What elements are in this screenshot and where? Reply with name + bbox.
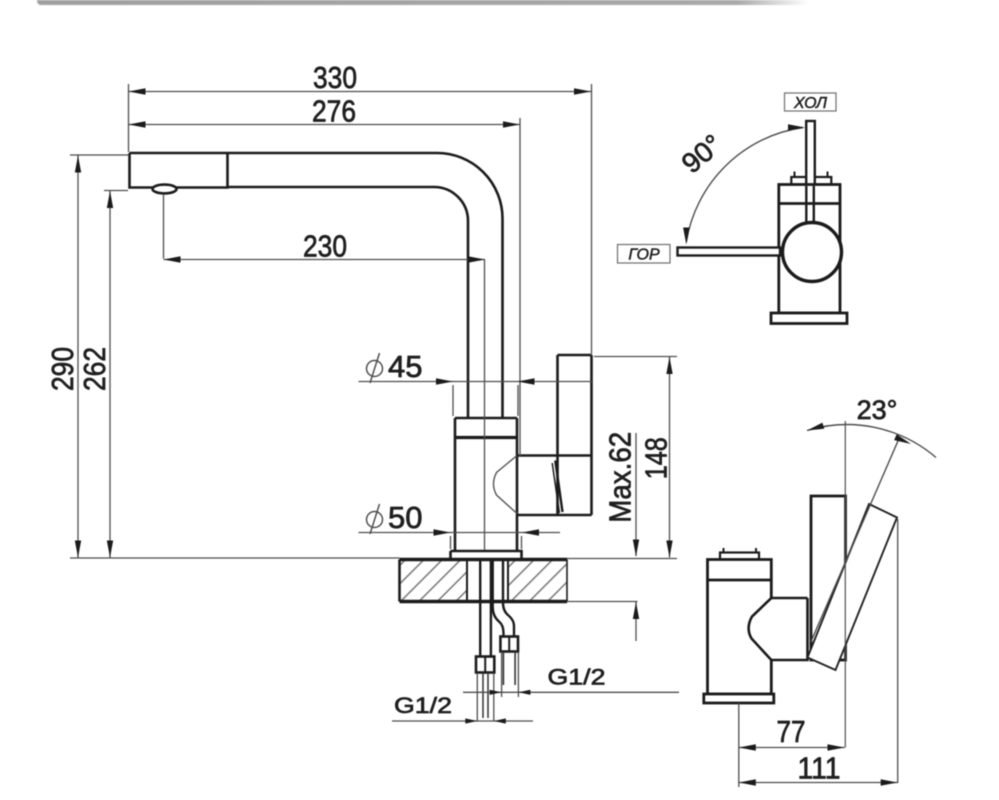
svg-text:23°: 23° [857, 395, 898, 425]
ext line 330 right [591, 84, 593, 354]
23 arc arrow right [894, 434, 911, 444]
arrow dia45 left [436, 378, 453, 384]
ext line dia50 left [450, 536, 452, 549]
arrow 77 right [828, 744, 845, 750]
arrow dia45 right [518, 378, 535, 384]
bent supply hose [493, 560, 514, 637]
dim line 290 [77, 156, 79, 558]
counter left edge [398, 560, 401, 602]
arrow max62 down [633, 540, 639, 557]
dim line 111 [739, 782, 898, 784]
cap ridge (top view) [791, 177, 831, 185]
aerator outlet [153, 185, 177, 194]
body top cap [455, 418, 517, 437]
base flange [451, 551, 522, 560]
side outlet top [517, 454, 592, 457]
dim line 276 [129, 124, 521, 126]
bent hose thread end [503, 652, 515, 686]
ext line 276 right [519, 118, 521, 456]
pipe centerline [484, 260, 486, 551]
centerline below flange (side view) [738, 703, 740, 787]
ext line dia50 right [521, 536, 523, 549]
arrow 290 top [75, 156, 81, 173]
ext line hose1 left [476, 673, 478, 722]
counter hatch right [508, 560, 567, 602]
svg-text:G1/2: G1/2 [394, 693, 452, 718]
counter hole left face [466, 560, 468, 602]
arrow 148 bottom [666, 541, 672, 558]
ball joint [783, 223, 842, 282]
ext line 111 right [897, 519, 899, 783]
svg-text:ХОЛ: ХОЛ [793, 95, 827, 112]
body cylinder (side view) [708, 560, 772, 695]
cap ridge (side view) [720, 553, 759, 560]
arrow 276 left [129, 121, 146, 127]
svg-text:50: 50 [388, 500, 422, 535]
dim line G12 right [463, 691, 679, 693]
svg-text:77: 77 [777, 714, 806, 749]
svg-text:276: 276 [312, 94, 356, 129]
90 degree arc [686, 128, 803, 243]
arrow 330 right [574, 88, 591, 94]
dia45 symbol [367, 353, 383, 383]
straight hose nut facet [484, 657, 486, 673]
ext line handle top [594, 356, 677, 358]
handle upright position [811, 496, 846, 660]
ext line hose2 right [517, 652, 519, 697]
label box GOR [618, 245, 671, 264]
counter right edge [566, 560, 568, 602]
lever lower edge [555, 461, 562, 513]
dim line dia45 [359, 381, 593, 383]
stick into body [806, 186, 814, 223]
dim line 330 [129, 91, 592, 93]
arrow 111 left [739, 779, 756, 785]
arrow 148 top [666, 357, 672, 374]
arrow 276 right [503, 121, 520, 127]
ext line hose1 right [493, 673, 495, 722]
spout tube outer edge [130, 153, 503, 418]
label box XOL [785, 93, 837, 111]
handle lever (front view) [558, 355, 592, 515]
spout tube inner edge [228, 187, 469, 418]
dim line 230 [164, 259, 486, 261]
arrow 77 left [739, 744, 756, 750]
counter hatch left [400, 560, 468, 602]
arrow G12L left [465, 718, 477, 723]
counter top [400, 558, 568, 561]
dim line 262 [109, 191, 111, 558]
dim line G12 left [392, 720, 533, 722]
faucet body (rear view) [779, 185, 840, 314]
body base (rear view) [771, 313, 847, 324]
ext line left top [128, 84, 130, 152]
cylinder collar [708, 579, 772, 582]
handle tilted 23deg [808, 504, 898, 670]
arrow 262 top [107, 191, 113, 208]
svg-text:230: 230 [303, 229, 347, 264]
arrow 262 bottom [107, 541, 113, 558]
dim line 77 [739, 747, 845, 749]
ridge tick right [755, 548, 757, 553]
counter bottom [400, 600, 568, 603]
arrow 230 left [164, 256, 181, 262]
straight hose thread end [483, 673, 488, 719]
svg-text:330: 330 [313, 60, 357, 95]
svg-text:262: 262 [77, 347, 112, 391]
ext line spout top left [70, 154, 129, 156]
counter hole right face [507, 560, 509, 602]
body cap line [779, 202, 840, 205]
arrow 230 right [468, 256, 485, 262]
arrow 111 right [881, 779, 898, 785]
arc arrow bottom [683, 228, 689, 245]
dim line 148 [669, 357, 671, 558]
svg-text:290: 290 [45, 347, 80, 391]
straight supply hose [480, 560, 491, 657]
body sides [455, 437, 517, 551]
bent hose nut facet [508, 637, 510, 652]
top toolbar remnant bar [37, 0, 812, 5]
hot position lever bar [678, 248, 781, 256]
svg-text:Max.62: Max.62 [603, 432, 638, 523]
side outlet bottom [517, 514, 592, 517]
23 degree arc [807, 425, 936, 458]
dim line dia50 [359, 532, 561, 534]
23 arc arrow left [807, 423, 824, 431]
ridge tick left [723, 548, 725, 553]
handle stick (cold position) [806, 121, 815, 225]
arrow dia50 right [522, 529, 539, 535]
vertical reference line [844, 421, 846, 748]
arrow G12L right [494, 718, 506, 723]
arrow 330 left [129, 88, 146, 94]
ext line hose2 left [501, 652, 503, 697]
counter bottom ext right [567, 601, 638, 603]
dim line max62 lower [635, 602, 637, 641]
arrow 290 bottom [75, 541, 81, 558]
arrow max62 up [633, 602, 639, 619]
handle axis line [811, 437, 900, 642]
valve boss [749, 598, 808, 660]
dia50 symbol [367, 504, 383, 534]
body collar [455, 436, 517, 439]
svg-text:ГОР: ГОР [628, 247, 660, 264]
straight hose nut [476, 657, 494, 673]
counter top ext right [567, 558, 677, 560]
lever lower edge 2 [552, 463, 559, 513]
ridge tick right [827, 172, 829, 178]
spout aerator box [130, 153, 228, 188]
svg-text:111: 111 [798, 751, 841, 786]
base flange (side view) [704, 694, 774, 703]
arrow dia50 left [434, 529, 451, 535]
svg-text:45: 45 [388, 349, 422, 384]
svg-text:148: 148 [639, 437, 674, 479]
svg-text:G1/2: G1/2 [548, 665, 606, 690]
ridge tick left [794, 172, 796, 178]
ext line dia45 right [517, 385, 519, 416]
dim line max62 upper [635, 433, 637, 556]
arc arrow top [788, 124, 805, 130]
arrow G12R left [490, 690, 502, 695]
ext line dia45 left [452, 385, 454, 416]
counter top ext left [70, 557, 400, 559]
arrow G12R right [518, 690, 530, 695]
bent hose nut [500, 637, 518, 652]
waterway outline [494, 456, 518, 514]
ext line spout bottom left [104, 190, 128, 192]
ext line aerator [163, 194, 165, 259]
